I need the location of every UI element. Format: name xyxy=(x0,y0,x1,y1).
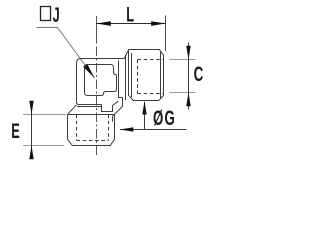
svg-text:C: C xyxy=(194,62,204,86)
svg-text:ØG: ØG xyxy=(153,106,176,130)
svg-text:E: E xyxy=(11,119,20,143)
svg-text:J: J xyxy=(53,3,60,27)
svg-text:L: L xyxy=(126,2,134,26)
